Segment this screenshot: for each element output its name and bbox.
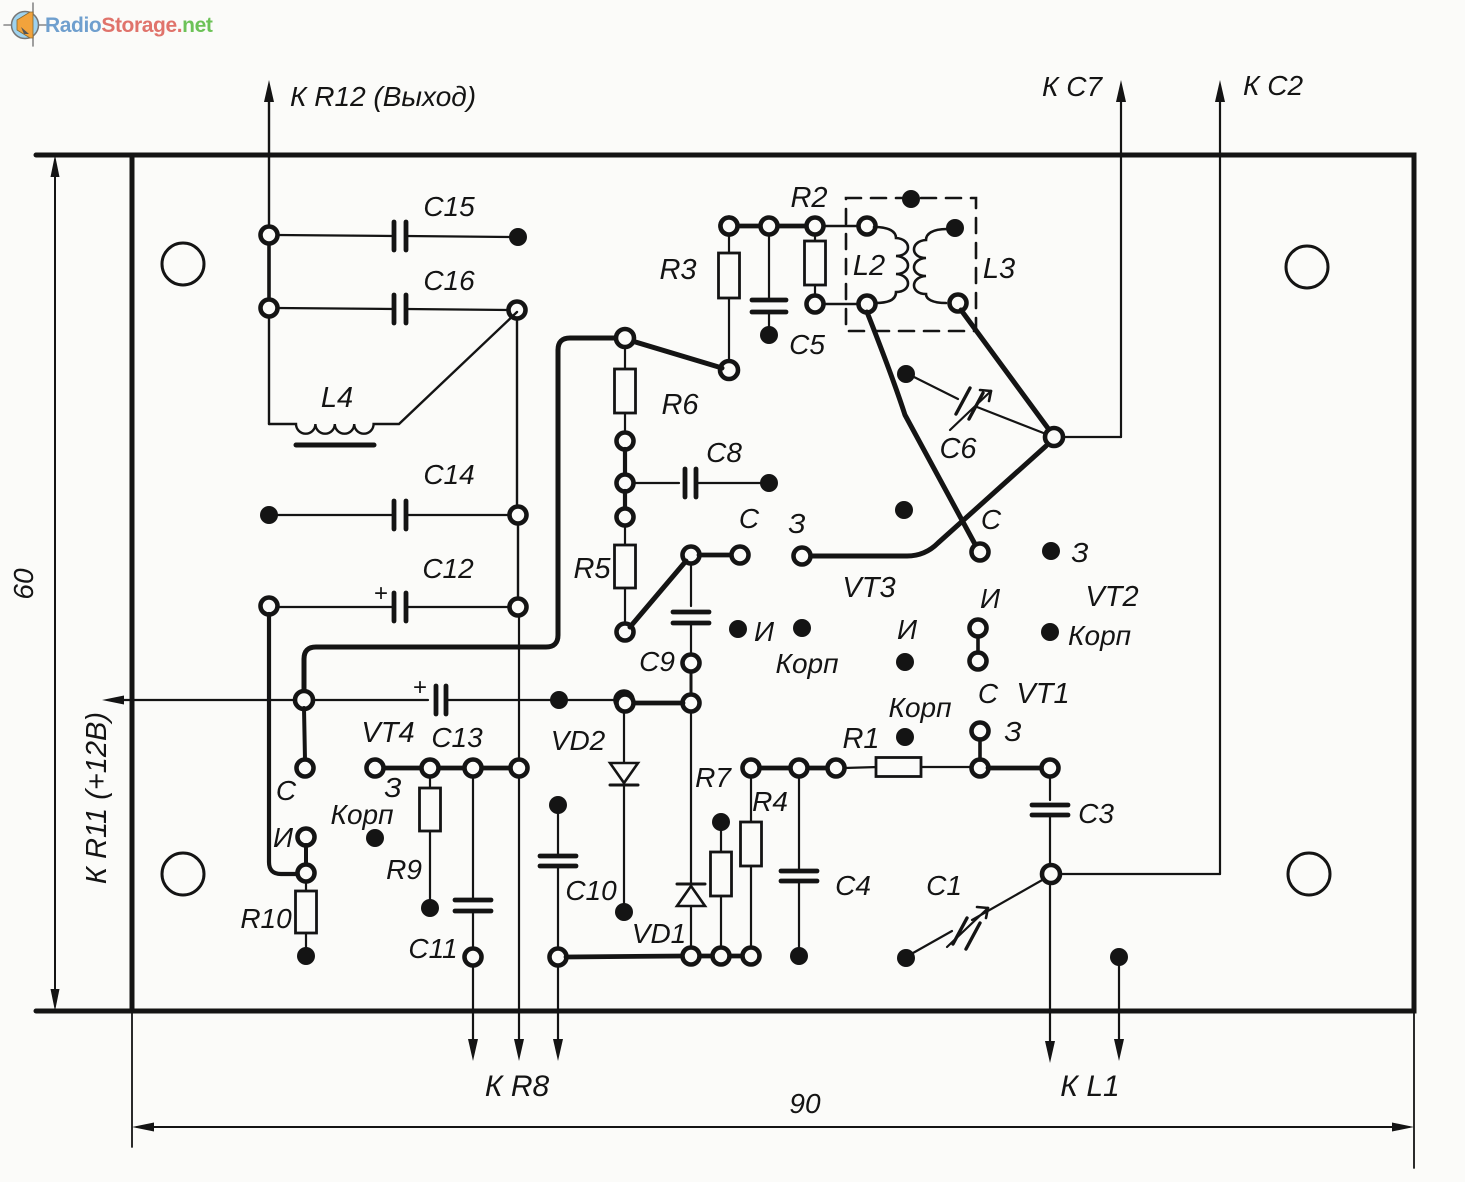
label VT2 Z bbox=[1071, 537, 1088, 568]
wire thick diagonal R5-C9 bbox=[630, 561, 686, 627]
wire thick diagonal R3-R6 bbox=[632, 341, 722, 368]
svg-text:С5: С5 bbox=[789, 329, 825, 360]
label VT2 C bbox=[981, 504, 1002, 535]
label Korp (VT3) bbox=[775, 648, 838, 679]
wire C9 to junction bbox=[690, 671, 693, 695]
svg-text:С: С bbox=[739, 503, 760, 534]
svg-text:С16: С16 bbox=[423, 265, 475, 296]
svg-text:И: И bbox=[980, 583, 1001, 614]
diode VD1 bbox=[632, 711, 705, 949]
svg-text:R9: R9 bbox=[386, 854, 422, 885]
svg-text:К R11 (+12В): К R11 (+12В) bbox=[81, 712, 113, 884]
svg-text:С12: С12 bbox=[422, 553, 474, 584]
svg-text:С15: С15 bbox=[423, 191, 475, 222]
svg-text:С: С bbox=[978, 678, 999, 709]
label VT4 C bbox=[276, 775, 297, 806]
inductor L3 bbox=[914, 229, 1015, 303]
pin VT2 I top bbox=[970, 620, 987, 637]
svg-text:С13: С13 bbox=[431, 722, 483, 753]
pin R5 bottom bbox=[617, 624, 634, 641]
pin C15 left bbox=[261, 227, 278, 244]
capacitor C3 bbox=[1032, 776, 1114, 866]
capacitor C10 bbox=[540, 796, 617, 949]
pin VD row left bbox=[617, 695, 634, 712]
label Korp (VT1) bbox=[888, 692, 951, 723]
pin VT4 I bbox=[298, 829, 315, 846]
pin L3 bottom bbox=[950, 295, 967, 312]
svg-text:С11: С11 bbox=[408, 933, 457, 964]
mounting hole bottom-left bbox=[162, 853, 204, 895]
inductor L2 bbox=[853, 227, 908, 303]
resistor R2 bbox=[790, 182, 827, 296]
pin C16 left bbox=[261, 300, 278, 317]
label VT3 C bbox=[739, 503, 760, 534]
svg-text:К L1: К L1 bbox=[1060, 1070, 1119, 1103]
pin VT4 drain junction bbox=[295, 691, 313, 709]
svg-text:И: И bbox=[897, 614, 918, 645]
pin C9 top bbox=[683, 547, 700, 564]
pin R1 row 3 bbox=[828, 760, 845, 777]
resistor R6 bbox=[615, 346, 700, 434]
wire R1 row bbox=[759, 767, 971, 768]
node C4 bottom (via) bbox=[790, 947, 808, 965]
wire VT3 C link bbox=[699, 553, 732, 558]
pin C9 bottom bbox=[683, 655, 700, 672]
node on K R11 line (via) bbox=[550, 691, 568, 709]
svg-text:R2: R2 bbox=[790, 182, 827, 214]
node R9 bottom (via) bbox=[421, 899, 439, 917]
pin R3 row top bbox=[721, 218, 738, 235]
svg-text:И: И bbox=[273, 822, 294, 853]
pin VT2 I bottom bbox=[970, 653, 987, 670]
svg-text:L2: L2 bbox=[853, 250, 885, 282]
resistor R3 bbox=[659, 234, 739, 362]
pin C1 top node bbox=[1042, 865, 1060, 883]
node L3 top (via) bbox=[946, 219, 964, 237]
inductor L4 bbox=[269, 312, 517, 445]
svg-text:Корп: Корп bbox=[330, 799, 393, 830]
svg-text:R7: R7 bbox=[695, 762, 732, 793]
wire VT4 I to lower pin bbox=[304, 845, 308, 866]
wire VD row bbox=[633, 701, 683, 706]
pin C10 bottom bbox=[550, 949, 567, 966]
pin R7 bottom bbox=[713, 948, 730, 965]
wire thick C6 node to VT3 gate bbox=[810, 446, 1046, 556]
resistor R10 bbox=[240, 881, 316, 948]
transistor VT3 label bbox=[842, 572, 895, 604]
svg-text:С9: С9 bbox=[639, 646, 675, 677]
label Korp (VT4) bbox=[330, 799, 393, 830]
node below I2 (via) bbox=[896, 653, 914, 671]
node on shield box top (via) bbox=[902, 190, 920, 208]
pin C14 right bbox=[510, 507, 527, 524]
pin VD2 top bbox=[616, 692, 633, 709]
svg-text:60: 60 bbox=[8, 568, 39, 600]
label VT3 Z bbox=[788, 508, 805, 539]
net arrow K R11 (+12V) bbox=[81, 696, 296, 885]
svg-text:VT1: VT1 bbox=[1016, 678, 1069, 710]
capacitor C8 bbox=[633, 437, 760, 497]
pin VT1 C pin bbox=[972, 723, 989, 740]
svg-text:З: З bbox=[1004, 716, 1021, 747]
node Korp VT4 (via) bbox=[366, 829, 384, 847]
svg-text:L4: L4 bbox=[321, 382, 353, 414]
pin R3 bottom bbox=[720, 361, 738, 379]
capacitor C6 (trimmer) bbox=[897, 365, 1046, 465]
svg-text:R5: R5 bbox=[573, 553, 611, 585]
wire C12 to VT4 source bracket bbox=[269, 614, 296, 874]
node near crossing (via) bbox=[895, 501, 913, 519]
wire C16-C14-C12 column bbox=[517, 318, 519, 760]
mounting hole bottom-right bbox=[1288, 853, 1330, 895]
net arrow K C2 bbox=[1059, 70, 1304, 874]
net arrow K C7 bbox=[1042, 71, 1126, 437]
svg-text:С3: С3 bbox=[1078, 798, 1114, 829]
pin R5 top bbox=[617, 509, 634, 526]
resistor R4 bbox=[741, 776, 788, 948]
svg-text:R3: R3 bbox=[659, 254, 696, 286]
pin R1 row 1 bbox=[743, 760, 760, 777]
svg-text:С: С bbox=[981, 504, 1002, 535]
pin R6 bottom bbox=[617, 433, 634, 450]
pin C11 top bbox=[465, 760, 482, 777]
wire VT4 drain bbox=[304, 708, 305, 760]
pin L2 bottom bbox=[859, 296, 876, 313]
capacitor C9 bbox=[639, 563, 709, 677]
resistor R1 bbox=[842, 723, 921, 777]
svg-text:VT4: VT4 bbox=[361, 717, 414, 749]
svg-text:С1: С1 bbox=[926, 870, 962, 901]
wire R2-L2 bottom bbox=[823, 303, 859, 305]
coil shield dashed box bbox=[846, 198, 976, 331]
node Korp VT1 (via) bbox=[896, 728, 914, 746]
wire power bus (thick stepped) bbox=[304, 338, 625, 692]
svg-text:К С7: К С7 bbox=[1042, 71, 1104, 102]
svg-text:90: 90 bbox=[789, 1088, 821, 1119]
svg-text:З: З bbox=[1071, 537, 1088, 568]
svg-text:Корп: Корп bbox=[1068, 620, 1131, 651]
net label K L1 with arrows bbox=[1045, 882, 1128, 1103]
pin C11 bottom bbox=[465, 949, 482, 966]
capacitor C16 bbox=[277, 265, 509, 323]
pin column bottom bbox=[511, 760, 528, 777]
svg-text:+: + bbox=[413, 674, 427, 701]
svg-text:С14: С14 bbox=[423, 459, 474, 490]
svg-text:З: З bbox=[384, 772, 401, 803]
svg-text:К R12 (Выход): К R12 (Выход) bbox=[290, 81, 476, 112]
svg-text:VT2: VT2 bbox=[1085, 581, 1138, 613]
label VT3 I 2 bbox=[897, 614, 918, 645]
resistor R7 bbox=[695, 762, 732, 948]
pin L2 top bbox=[859, 218, 876, 235]
svg-text:R10: R10 bbox=[240, 903, 292, 934]
pin VT4 C bbox=[297, 760, 314, 777]
dimension 90 (bottom) bbox=[132, 1088, 1414, 1132]
capacitor C12 (polar) bbox=[277, 553, 510, 621]
pin C3 top bbox=[1042, 760, 1059, 777]
pin C6 right node bbox=[1045, 428, 1063, 446]
pin R9 top bbox=[422, 760, 439, 777]
pin R2 top bbox=[807, 218, 824, 235]
svg-text:Корп: Корп bbox=[888, 692, 951, 723]
svg-text:С6: С6 bbox=[939, 433, 977, 465]
node VT2 Korp (via) bbox=[1041, 623, 1059, 641]
wire VT2 I pins bbox=[976, 636, 980, 653]
svg-text:VD1: VD1 bbox=[632, 918, 686, 949]
svg-text:Корп: Корп bbox=[775, 648, 838, 679]
capacitor C14 bbox=[260, 459, 510, 529]
svg-text:VD2: VD2 bbox=[551, 725, 606, 756]
wire thick L2 to VT2 C bbox=[867, 312, 976, 546]
transistor VT4 label bbox=[361, 717, 414, 749]
mounting hole top-right bbox=[1286, 246, 1328, 288]
capacitor C4 bbox=[781, 776, 871, 948]
label VT4 I bbox=[273, 822, 294, 853]
svg-text:VT3: VT3 bbox=[842, 572, 895, 604]
svg-text:К С2: К С2 bbox=[1243, 70, 1304, 101]
svg-text:К R8: К R8 bbox=[485, 1070, 550, 1103]
capacitor C1 (trimmer) bbox=[897, 870, 1044, 967]
svg-text:С8: С8 bbox=[706, 437, 742, 468]
capacitor C5 bbox=[752, 234, 825, 360]
RadioStorage.net logo bbox=[4, 3, 213, 46]
pin R6 top junction bbox=[616, 329, 634, 347]
wire K R12 column bbox=[267, 243, 271, 300]
wire top pin row bbox=[737, 224, 859, 229]
net label K R8 with arrows bbox=[468, 776, 563, 1103]
capacitor C13 (polar) bbox=[413, 674, 483, 753]
wire VT1 pins bbox=[978, 739, 982, 760]
label VT4 Z bbox=[384, 772, 401, 803]
node VT3 I left (via) bbox=[729, 620, 747, 638]
pin C8 junction bbox=[617, 475, 634, 492]
svg-text:+: + bbox=[374, 580, 388, 607]
pin R2 bottom bbox=[807, 296, 824, 313]
mounting hole top-left bbox=[162, 243, 204, 285]
wire gate row bbox=[383, 766, 511, 771]
svg-text:И: И bbox=[754, 616, 775, 647]
pin gate row 1 bbox=[367, 760, 384, 777]
wire K R11 line bbox=[313, 699, 616, 701]
diode VD2 bbox=[551, 708, 638, 903]
label VT3 I bbox=[754, 616, 775, 647]
net arrow K R12 (output) bbox=[264, 80, 476, 232]
capacitor C15 bbox=[277, 191, 510, 250]
pin C5 top bbox=[761, 218, 778, 235]
pin C12 right bbox=[510, 599, 527, 616]
label Korp (VT2) bbox=[1068, 620, 1131, 651]
node VT3 I right (via) bbox=[793, 619, 811, 637]
wire ground row (bottom thick) bbox=[566, 956, 743, 957]
node VD2 bottom (via) bbox=[615, 903, 633, 921]
pin VD1 bottom bbox=[683, 948, 700, 965]
label VT2 I bbox=[980, 583, 1001, 614]
svg-text:R1: R1 bbox=[842, 723, 879, 755]
svg-text:З: З bbox=[788, 508, 805, 539]
svg-text:С: С bbox=[276, 775, 297, 806]
pin VT3 C bbox=[732, 547, 749, 564]
wire C8-R5 junction bbox=[623, 491, 627, 510]
pin VT3 Z bbox=[794, 548, 811, 565]
svg-text:L3: L3 bbox=[983, 253, 1015, 285]
pin R4 bottom bbox=[743, 948, 760, 965]
wire VT1 Z to C3 bbox=[988, 766, 1041, 771]
label VT1 C bbox=[978, 678, 999, 709]
wire thick L3 to C6 node bbox=[961, 310, 1050, 431]
transistor VT2 label bbox=[1085, 581, 1138, 613]
label VT1 Z right bbox=[1004, 716, 1021, 747]
pin VT4 lower bbox=[298, 865, 315, 882]
resistor R5 bbox=[573, 525, 635, 624]
node VT2 Z (via) bbox=[1042, 542, 1060, 560]
node C5 bottom (via) bbox=[760, 326, 778, 344]
node C15 right (via) bbox=[509, 228, 527, 246]
pin junction VD row right bbox=[683, 695, 700, 712]
pin R1 row 2 bbox=[791, 760, 808, 777]
dimension 60 (left) bbox=[8, 155, 60, 1011]
transistor VT1 label bbox=[1016, 678, 1069, 710]
svg-text:R4: R4 bbox=[752, 786, 788, 817]
svg-text:С10: С10 bbox=[565, 875, 617, 906]
pin R3 top bbox=[721, 218, 738, 235]
pin C16 right bbox=[509, 302, 526, 319]
resistor R9 bbox=[386, 776, 440, 900]
pin VT1 Z bbox=[972, 760, 989, 777]
pin C12 left bbox=[261, 598, 278, 615]
pin VT2 C bbox=[972, 544, 989, 561]
wire R6-C8 junction bbox=[623, 449, 627, 476]
svg-text:С4: С4 bbox=[835, 870, 871, 901]
node C8 right (via) bbox=[760, 474, 778, 492]
node R10 bottom (via) bbox=[297, 947, 315, 965]
capacitor C11 bbox=[408, 776, 491, 964]
svg-text:R6: R6 bbox=[661, 389, 699, 421]
svg-text:RadioStorage.net: RadioStorage.net bbox=[45, 14, 213, 37]
